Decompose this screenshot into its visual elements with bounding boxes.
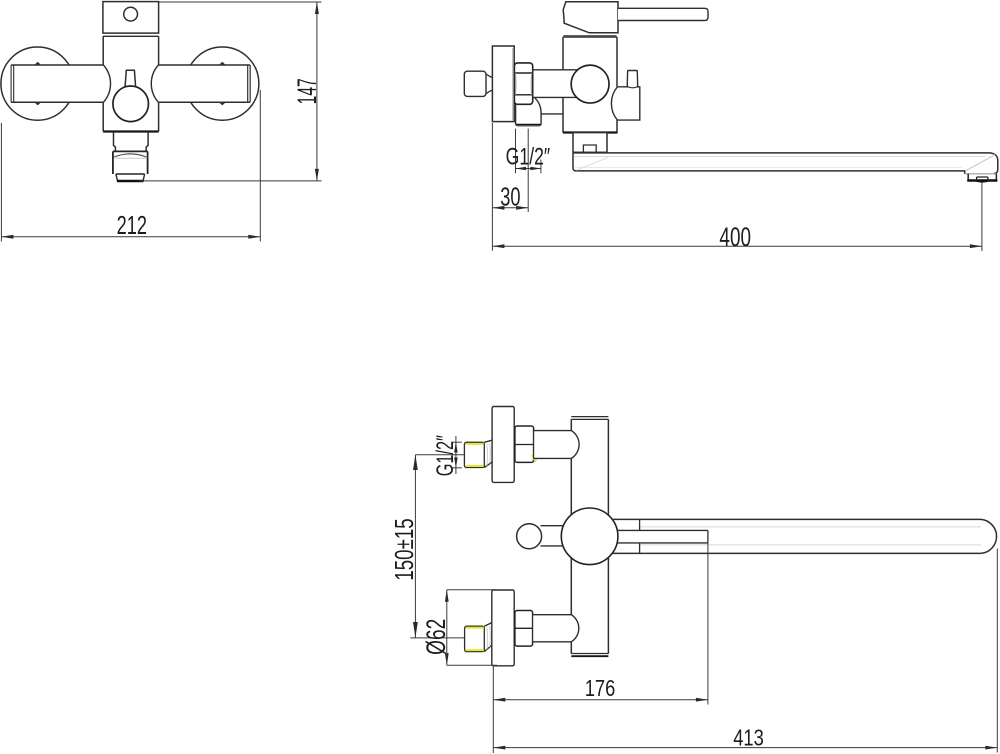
svg-text:30: 30 [500,182,520,211]
arrow G1/2 right [530,167,541,171]
top eccentric: cone [484,440,492,467]
aerator dome grey line [114,157,146,159]
arrow 176 right [696,698,708,702]
bottom pipe bullet [571,615,578,642]
diverter knob [627,71,638,88]
inner tube end line [707,530,709,543]
left escutcheon circle [1,47,74,120]
outlet axis line [527,129,529,212]
arrow G1/2 down [454,458,458,468]
arrow 176 left [493,698,505,702]
top escutcheon disc [492,407,514,483]
ext G1/2 bottom [452,467,462,469]
ext G1/2 top [452,441,462,443]
arrow 30 right [516,206,528,210]
ext 150 bottom [410,637,464,639]
svg-text:G1/2″: G1/2″ [506,143,551,171]
ext 150 top [415,454,464,456]
ext 176 right [707,543,709,705]
ext d62 bottom [447,664,497,666]
handle stub [125,70,136,86]
grey reflection lines [641,526,982,528]
center tick right circle bottom [219,102,227,105]
outer edges [612,519,996,553]
cartridge circle top view [561,508,618,565]
body bar [571,417,608,657]
ext line 212 right [259,90,261,242]
arrow 413 left [493,746,505,750]
dim line 150 [414,455,416,638]
dim line 212 [1,236,260,238]
ext 176/413 left [492,666,494,753]
swivel collar ticks [639,519,641,553]
aerator dome arc [114,154,146,157]
handle lever [618,8,708,20]
dim line G1/2 top view [455,436,457,474]
cap side [563,2,618,33]
ext G1/2 left [515,129,517,174]
bottom inlet pipe [533,615,572,642]
arrow 212 left [1,235,13,239]
center tick right circle top [219,62,227,65]
arrow 400 left [492,244,504,248]
handle knob circle [517,524,542,549]
left pipe bullet arc [103,65,110,102]
arrow d62 down [445,653,449,665]
center tick left circle bottom [34,102,42,105]
handle lever bar top view [541,526,564,546]
svg-text:147: 147 [291,78,321,104]
mixer body column [103,36,158,131]
arrow 147 top [315,2,319,14]
svg-text:Ø62: Ø62 [421,619,451,655]
spout aerator housing [968,174,996,181]
dim line 147 [316,2,318,181]
aerator shell [113,151,148,174]
dim line G1/2 [516,168,541,170]
top pipe bullet [571,431,579,459]
yellow mark at top nut [532,455,539,462]
dim line 400 [492,245,982,247]
arrow 212 right [248,235,260,239]
dim line d62 [446,590,448,666]
spout connector [573,133,607,153]
arrow d62 up [445,590,449,602]
ext 413 right [996,549,998,753]
svg-text:400: 400 [719,221,751,251]
arrow 30 left [492,206,504,210]
connector notch [583,145,596,152]
dim line 30 [492,207,528,209]
right supply pipe [158,65,250,102]
ext line 147 bottom [139,180,322,182]
ext G1/2 right [540,160,542,174]
bottom hex nut [515,611,533,647]
arrow 150 up [413,455,418,470]
inner tube lines [617,530,708,543]
wall supply stub [464,71,486,96]
ext line 212 left [0,123,2,242]
arrow 400 right [970,244,982,248]
bottom eccentric: cone [484,623,492,652]
top hex nut [515,426,534,462]
ext line 147 top [159,1,322,3]
arrow G1/2 up [454,442,458,452]
arrow 147 bottom [315,169,319,181]
spout right chamfer diagonal [966,155,995,171]
arrow G1/2 left [516,167,527,171]
center tick left circle top [34,62,42,65]
ring line side [563,35,616,37]
wall plate [492,46,514,122]
diverter housing [611,87,639,120]
svg-text:176: 176 [585,676,616,702]
ext d62 top [447,589,494,591]
ext 30/400 left [491,123,493,251]
spout top view [612,519,996,553]
spout left chamfer diagonal [577,157,609,170]
wall plate shadow line [512,48,514,121]
svg-text:413: 413 [733,726,764,752]
svg-text:212: 212 [117,211,147,240]
svg-text:150±15: 150±15 [389,518,419,580]
right pipe bullet arc [151,65,158,102]
top inlet pipe [534,431,572,459]
cartridge circle [571,65,609,103]
aerator insert [116,174,145,181]
left supply pipe [11,65,104,102]
right escutcheon circle [186,47,259,120]
outlet under nut [516,98,563,125]
dim line 176 [493,699,708,701]
spout tube [573,153,998,174]
ext 400 right [981,183,983,252]
handle cap rect [103,2,159,33]
spout neck [114,132,149,152]
cap screw hole [124,7,138,21]
arrow 413 right [985,746,997,750]
svg-text:G1/2″: G1/2″ [432,435,459,476]
body side [563,37,618,133]
nut-to-body pipe [533,70,578,98]
bottom escutcheon disc [492,590,514,666]
dim line 413 [493,747,997,749]
handle ball [113,86,149,122]
arrow 150 down [413,622,418,638]
ring line under cap [103,35,159,37]
bottom eccentric: supply stub [465,626,485,651]
spout grey reflection lines [575,156,986,158]
top eccentric: supply stub [464,442,484,467]
spout aerator insert [977,177,988,180]
hex nut side [514,63,532,104]
